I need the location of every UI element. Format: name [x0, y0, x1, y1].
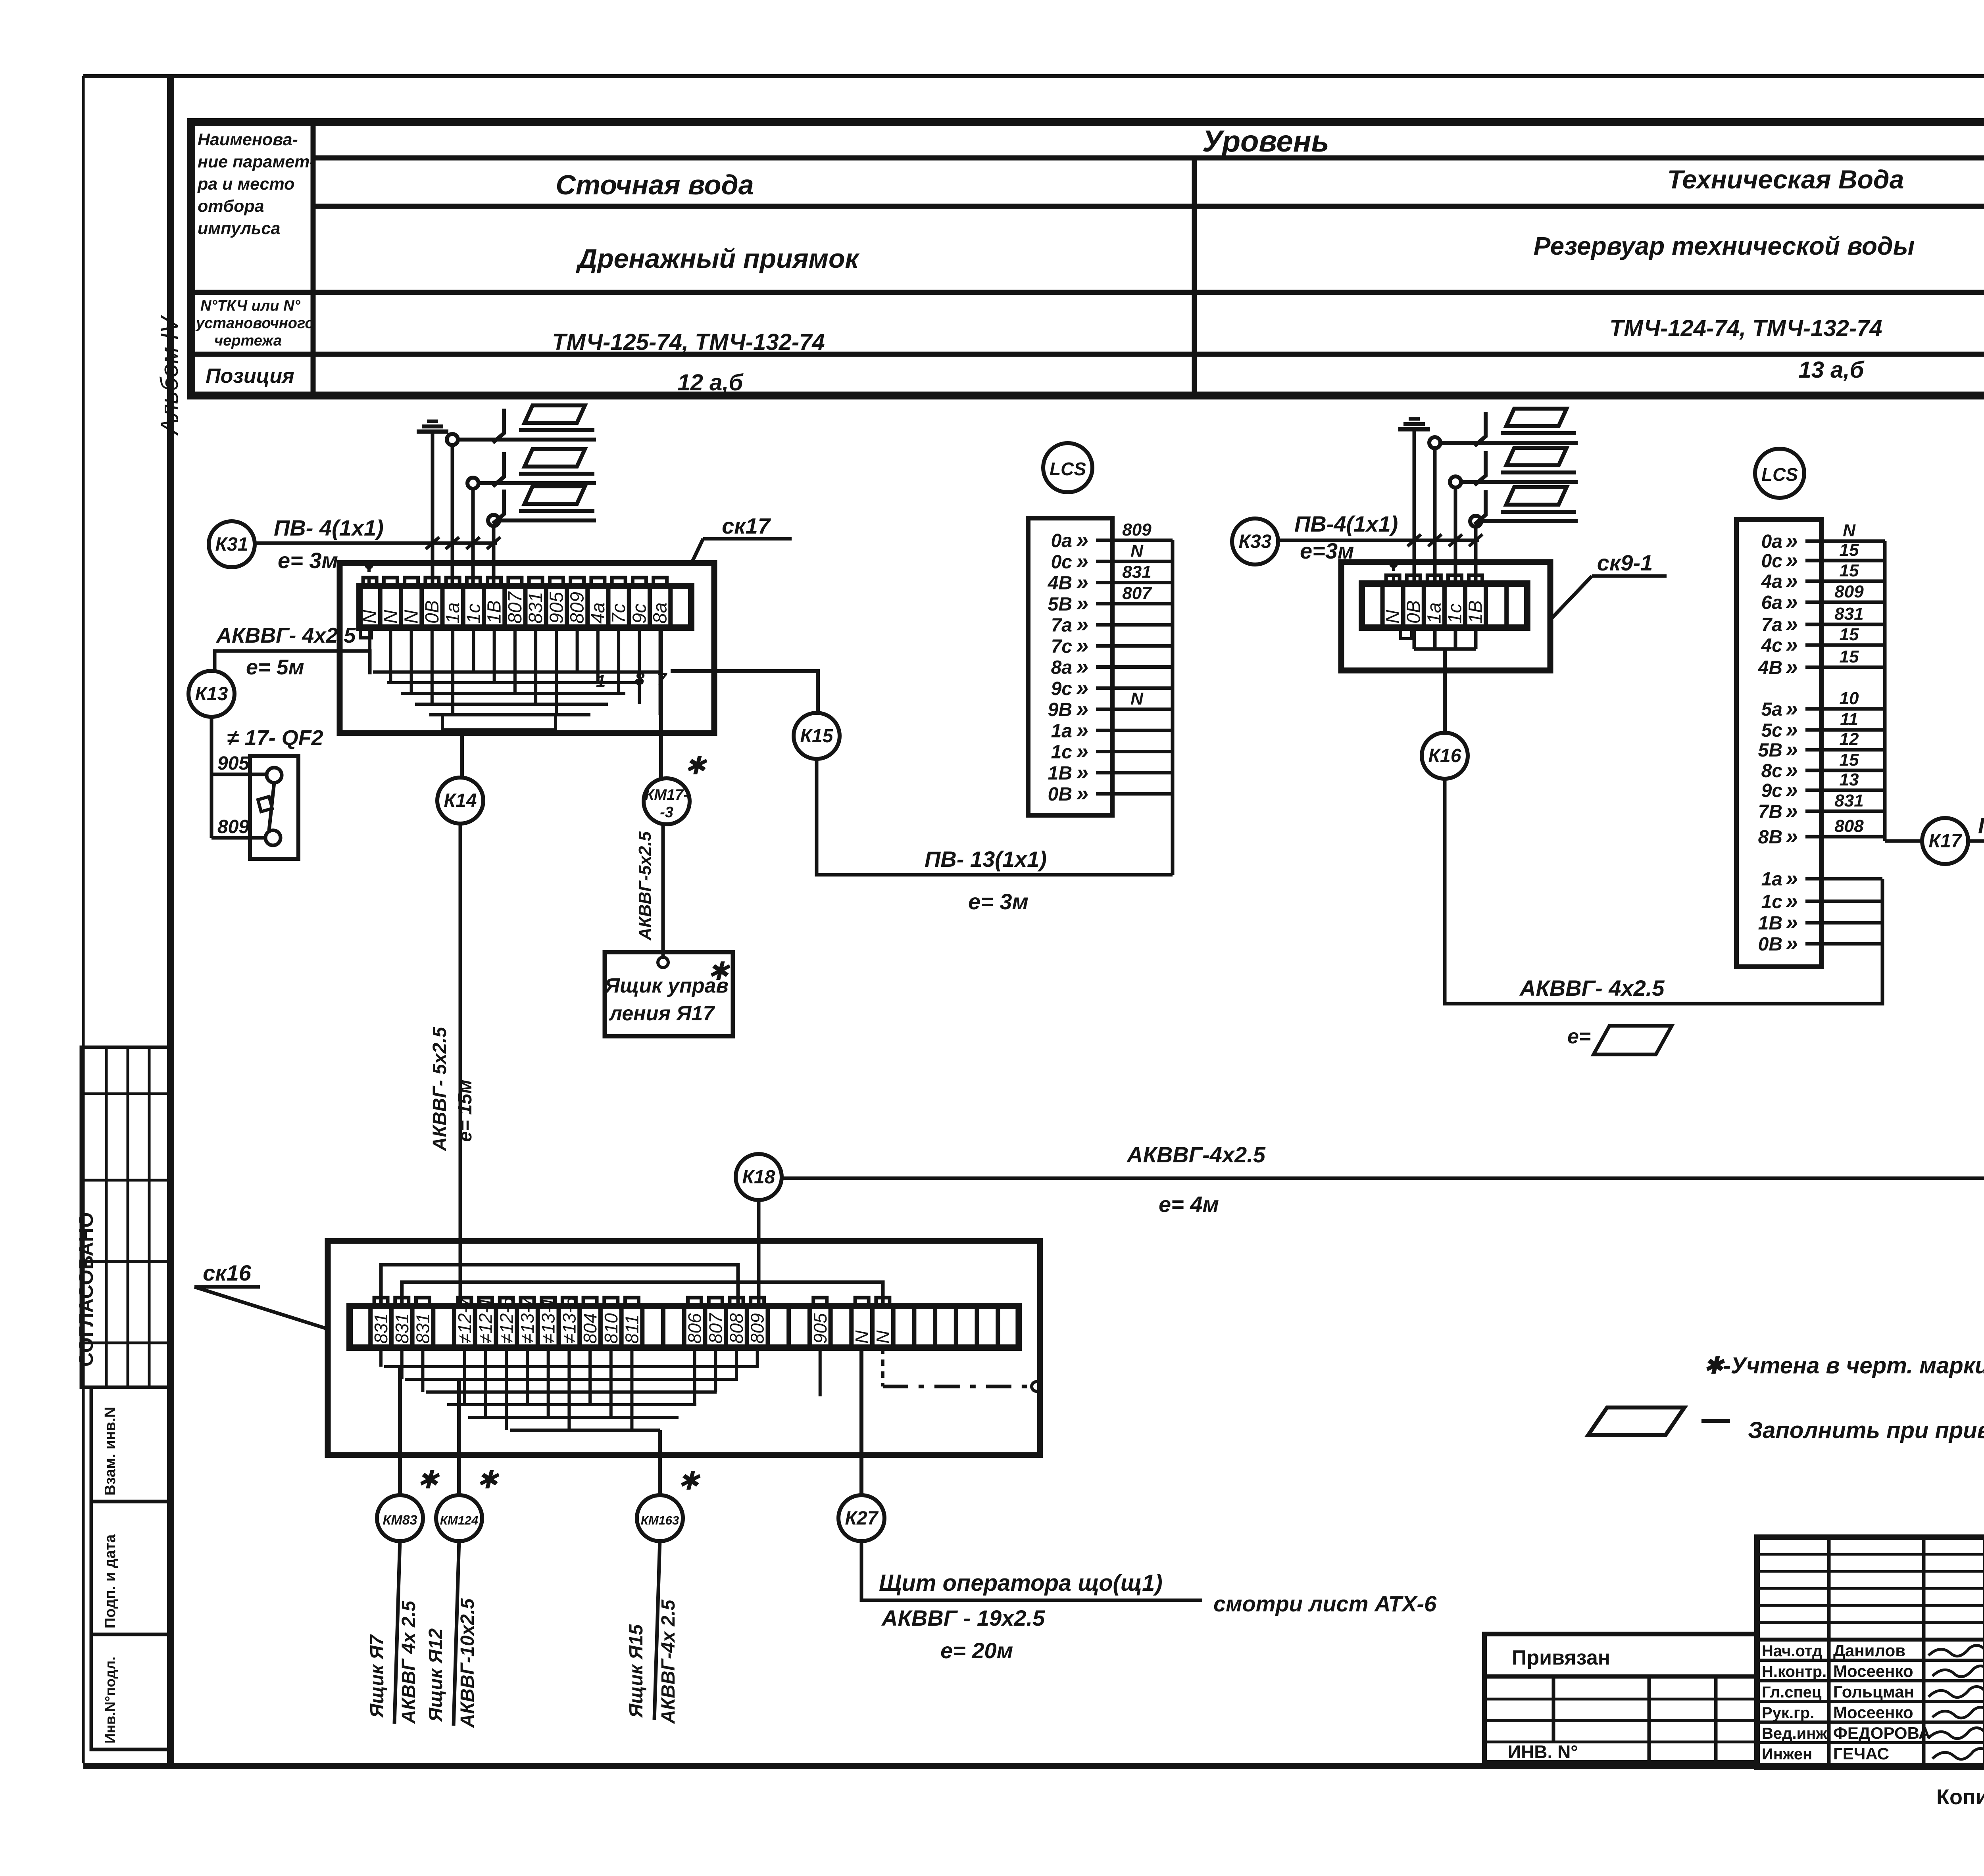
svg-text:1с: 1с: [1761, 891, 1782, 912]
svg-text:4а: 4а: [588, 603, 609, 624]
svg-text:ления Я17: ления Я17: [608, 1002, 715, 1025]
wire dash-dot spare to box edge: [881, 1348, 884, 1386]
svg-text:Ящик Я7: Ящик Я7: [367, 1634, 388, 1719]
svg-text:5а: 5а: [1761, 699, 1782, 720]
wire bus ПВ-14: [1883, 541, 1887, 841]
svg-text:ск16: ск16: [203, 1260, 252, 1285]
svg-text:0с: 0с: [1761, 551, 1782, 572]
node К17: [1922, 818, 1968, 864]
svg-text:»: »: [1786, 931, 1798, 956]
svg-text:808: 808: [1834, 816, 1864, 836]
wire bus ПВ-13: [1171, 540, 1175, 875]
svg-text:N: N: [1130, 541, 1144, 561]
parallelogram placeholder (е=): [1594, 1026, 1672, 1054]
svg-text:LCS: LCS: [1050, 459, 1086, 479]
svg-text:К15: К15: [800, 726, 834, 747]
svg-text:1а: 1а: [1051, 720, 1072, 741]
wire ящик Я12 (АКВВГ-10х2.5): [454, 1540, 459, 1726]
svg-text:0В: 0В: [422, 600, 443, 624]
svg-text:9с: 9с: [1051, 678, 1072, 699]
svg-text:Дренажный приямок: Дренажный приямок: [576, 244, 860, 274]
svg-text:807: 807: [705, 1313, 726, 1344]
svg-text:4В: 4В: [1758, 657, 1782, 678]
ground symbol ск9-1: [1409, 417, 1420, 421]
svg-text:N: N: [380, 610, 401, 624]
svg-text:804: 804: [580, 1313, 600, 1344]
margin box Взам.инв.N: [91, 1387, 171, 1502]
svg-text:ФЕДОРОВА: ФЕДОРОВА: [1833, 1724, 1930, 1742]
wire АКВВГ-4х2.5 е=4м К18 to ск9-2: [782, 1177, 1984, 1180]
svg-text:N: N: [873, 1330, 893, 1344]
svg-text:чертежа: чертежа: [214, 332, 282, 349]
svg-text:»: »: [1786, 824, 1798, 849]
svg-text:807: 807: [1122, 584, 1152, 603]
svg-text:0а: 0а: [1051, 530, 1072, 551]
svg-text:АКВВГ-10х2.5: АКВВГ-10х2.5: [457, 1598, 478, 1728]
svg-text:831: 831: [371, 1313, 391, 1344]
svg-text:К13: К13: [195, 684, 228, 705]
svg-text:5В: 5В: [1048, 594, 1072, 615]
svg-text:1а: 1а: [1424, 603, 1445, 624]
wire ПВ-4(1х1) from К33: [1278, 539, 1479, 542]
svg-text:810: 810: [601, 1313, 621, 1344]
svg-text:АКВВГ-4х 2.5: АКВВГ-4х 2.5: [658, 1599, 679, 1724]
svg-text:Наименова-: Наименова-: [198, 130, 298, 149]
level sensor 3 (ск17): [488, 515, 499, 526]
sheet outer border: [83, 74, 1984, 78]
svg-text:7В: 7В: [1758, 801, 1782, 822]
svg-text:0В: 0В: [1758, 934, 1782, 955]
svg-text:ПВ- 4(1х1): ПВ- 4(1х1): [274, 515, 384, 540]
svg-text:831: 831: [1122, 563, 1151, 582]
svg-text:ИНВ. N°: ИНВ. N°: [1508, 1742, 1578, 1762]
svg-text:8с: 8с: [1761, 760, 1782, 782]
svg-text:8а: 8а: [650, 603, 671, 624]
margin table СОГЛАСОВАНО: [81, 1047, 171, 1387]
svg-text:7а: 7а: [1761, 614, 1782, 636]
svg-text:Данилов: Данилов: [1833, 1641, 1905, 1660]
svg-text:Гл.спец: Гл.спец: [1762, 1684, 1822, 1701]
svg-text:Нач.отд: Нач.отд: [1762, 1642, 1822, 1660]
node: junction dot ск9-1 N: [1389, 559, 1398, 568]
svg-text:Привязан: Привязан: [1512, 1646, 1610, 1669]
svg-text:ра и место: ра и место: [197, 175, 294, 194]
svg-text:13: 13: [1840, 770, 1859, 789]
wire ПВ-14(1х1) е=3м К17 to ск9-2: [1968, 712, 1984, 841]
level sensor 1 (ск9-1): [1429, 437, 1440, 448]
wire К14 to ск16 (АКВВГ-5х2.5 е=15м): [459, 824, 462, 1306]
node К33: [1232, 518, 1278, 565]
svg-text:ск17: ск17: [722, 513, 771, 538]
wire hook under ск17 N1: [360, 628, 371, 638]
svg-text:АКВВГ - 19х2.5: АКВВГ - 19х2.5: [881, 1605, 1045, 1630]
terminal strip ск16: [350, 1306, 1019, 1348]
svg-text:е= 20м: е= 20м: [940, 1638, 1013, 1663]
svg-text:809: 809: [567, 592, 588, 624]
svg-text:≠ 17- QF2: ≠ 17- QF2: [227, 726, 323, 750]
svg-text:»: »: [1786, 589, 1798, 614]
svg-text:N: N: [1130, 689, 1144, 709]
svg-text:Сточная вода: Сточная вода: [556, 169, 754, 200]
svg-text:N: N: [360, 610, 381, 624]
node КМ83: [377, 1495, 423, 1541]
level sensor 3 (ск9-1): [1470, 516, 1481, 527]
svg-text:831: 831: [412, 1313, 433, 1344]
svg-text:4а: 4а: [1761, 571, 1782, 592]
wire ПВ-4(1х1) from К31: [256, 541, 497, 545]
svg-text:6а: 6а: [1761, 592, 1782, 613]
terminal box ск17 outline: [340, 563, 714, 733]
svg-text:К16: К16: [1428, 745, 1461, 766]
svg-text:АКВВГ- 4х2.5: АКВВГ- 4х2.5: [215, 624, 356, 647]
svg-text:7с: 7с: [608, 603, 629, 624]
svg-text:9с: 9с: [629, 603, 650, 624]
svg-text:N: N: [1382, 610, 1403, 624]
svg-text:Резервуар технической воды: Резервуар технической воды: [1534, 232, 1915, 260]
svg-text:ТМЧ-124-74, ТМЧ-132-74: ТМЧ-124-74, ТМЧ-132-74: [1609, 315, 1882, 341]
svg-text:809: 809: [1122, 520, 1152, 540]
svg-text:установочного: установочного: [195, 315, 314, 332]
wire ск17 8а to КМ17-3: [659, 628, 663, 778]
instrument circle LCS (left): [1043, 443, 1092, 492]
svg-text:СОГЛАСОВАНО: СОГЛАСОВАНО: [75, 1212, 97, 1367]
svg-text:Щит оператора що(щ1): Щит оператора що(щ1): [879, 1570, 1163, 1596]
wire ск17 exit to К14: [460, 730, 464, 777]
svg-text:е= 3м: е= 3м: [278, 548, 338, 573]
svg-text:905: 905: [217, 753, 250, 774]
svg-text:8а: 8а: [1051, 657, 1072, 678]
wire К27 to щит оператора: [861, 1540, 1202, 1600]
wire bundle under ск16: [384, 1365, 759, 1368]
legend: заполнить при привязке: [1588, 1407, 1684, 1435]
svg-text:КМ124: КМ124: [440, 1513, 479, 1527]
svg-text:✱-Учтена в черт. марки ЭМ: ✱-Учтена в черт. марки ЭМ: [1704, 1353, 1984, 1379]
svg-text:✱: ✱: [707, 957, 731, 985]
svg-text:К17: К17: [1929, 831, 1963, 852]
title block upper small rows: [1757, 1553, 1984, 1556]
svg-text:905: 905: [546, 592, 567, 624]
svg-text:Мосеенко: Мосеенко: [1833, 1703, 1913, 1722]
node КМ17-3: [644, 778, 690, 824]
margin box Инв.N подл.: [91, 1634, 171, 1749]
terminal box ск9-1 outline: [1341, 562, 1550, 670]
wire exits to КМ83 КМ124 КМ163 К27: [398, 1367, 402, 1496]
wire КМ17-3 to ящик Я17 (АКВВГ-5х2.5): [661, 825, 665, 958]
svg-text:0В: 0В: [1403, 600, 1424, 624]
wire АКВВГ-4х2.5 е=пустое К16 to LCS right: [1445, 778, 1882, 1004]
svg-text:✱: ✱: [477, 1465, 500, 1494]
node К14: [437, 778, 483, 824]
svg-text:8: 8: [635, 669, 645, 689]
svg-text:15: 15: [1840, 750, 1859, 770]
wire bundle under ск9-1: [1413, 628, 1416, 649]
svg-text:К31: К31: [215, 534, 248, 555]
svg-text:15: 15: [1840, 625, 1859, 644]
svg-text:Позиция: Позиция: [206, 365, 294, 388]
svg-text:905: 905: [810, 1313, 831, 1344]
svg-text:Гольцман: Гольцман: [1833, 1682, 1914, 1701]
wire bundle under ск17: [368, 628, 371, 672]
wire ск9-1 exit to К16: [1443, 649, 1447, 734]
svg-text:»: »: [1786, 632, 1798, 657]
svg-text:1с: 1с: [1051, 742, 1072, 763]
svg-text:831: 831: [1834, 604, 1863, 624]
margin box Подп. и дата: [91, 1502, 171, 1634]
svg-text:4В: 4В: [1048, 573, 1072, 594]
svg-text:809: 809: [747, 1313, 768, 1344]
svg-text:1В: 1В: [1048, 763, 1072, 784]
svg-text:806: 806: [684, 1313, 705, 1344]
wire over-strip runs ск16: [381, 1265, 738, 1306]
svg-text:ПВ-4(1х1): ПВ-4(1х1): [1294, 511, 1398, 536]
svg-text:8В: 8В: [1758, 827, 1782, 848]
title block columns: [1827, 1537, 1831, 1767]
svg-text:0В: 0В: [1048, 784, 1072, 805]
svg-text:N: N: [401, 610, 422, 624]
svg-text:КМ17-: КМ17-: [645, 787, 688, 803]
svg-text:1а: 1а: [442, 603, 463, 624]
svg-text:809: 809: [217, 816, 249, 837]
drawing frame: [167, 76, 174, 1766]
svg-text:13 а,б: 13 а,б: [1799, 357, 1865, 383]
svg-text:N°ТКЧ или N°: N°ТКЧ или N°: [200, 298, 301, 314]
svg-text:е=: е=: [1567, 1025, 1591, 1048]
svg-text:КМ83: КМ83: [383, 1513, 417, 1528]
svg-text:0а: 0а: [1761, 531, 1782, 552]
svg-text:Взам. инв.N: Взам. инв.N: [102, 1407, 119, 1496]
title block main frame: [1757, 1537, 1984, 1767]
node К16: [1422, 733, 1468, 779]
svg-text:К27: К27: [845, 1508, 879, 1529]
svg-text:Альбом IV: Альбом IV: [156, 315, 183, 436]
svg-text:1В: 1В: [484, 600, 505, 624]
svg-text:0с: 0с: [1051, 551, 1072, 572]
svg-text:»: »: [1786, 866, 1798, 891]
svg-text:-3: -3: [660, 804, 673, 821]
svg-text:N: N: [852, 1330, 872, 1344]
node: junction dot ск17 N: [365, 561, 373, 569]
node КМ163: [637, 1495, 683, 1541]
svg-text:Уровень: Уровень: [1202, 125, 1329, 158]
svg-text:Н.контр.: Н.контр.: [1762, 1663, 1826, 1680]
svg-text:Инв.N°подл.: Инв.N°подл.: [102, 1657, 118, 1744]
svg-text:АКВВГ- 4х2.5: АКВВГ- 4х2.5: [1519, 975, 1665, 1000]
svg-text:импульса: импульса: [198, 219, 280, 238]
svg-text:ск9-1: ск9-1: [1597, 550, 1653, 575]
svg-text:К18: К18: [742, 1167, 775, 1188]
svg-text:Вед.инж.: Вед.инж.: [1762, 1725, 1832, 1742]
svg-text:11: 11: [1840, 710, 1858, 729]
wire hook under ск9-1 N: [1401, 628, 1412, 639]
svg-text:9В: 9В: [1048, 699, 1072, 720]
svg-text:✱: ✱: [678, 1467, 701, 1495]
level sensor 2 (ск17): [467, 478, 479, 489]
svg-text:809: 809: [1834, 582, 1864, 601]
node КМ124: [436, 1495, 482, 1541]
svg-text:АКВВГ-5х2.5: АКВВГ-5х2.5: [635, 831, 655, 941]
svg-text:LCS: LCS: [1761, 464, 1798, 485]
svg-text:10: 10: [1840, 689, 1859, 708]
svg-text:Техническая Вода: Техническая Вода: [1667, 165, 1904, 194]
wire К13 to QF2: [210, 718, 213, 838]
parameter table frame: [191, 122, 1984, 396]
svg-text:»: »: [1786, 654, 1798, 679]
svg-text:1: 1: [596, 672, 606, 691]
svg-text:1В: 1В: [1758, 913, 1782, 934]
svg-text:811: 811: [621, 1315, 642, 1344]
node К18: [736, 1154, 782, 1200]
svg-text:831: 831: [1834, 791, 1863, 810]
ground symbol ск17: [427, 420, 438, 423]
node К27: [838, 1495, 884, 1541]
svg-text:808: 808: [726, 1313, 747, 1344]
level sensor 1 (ск17): [447, 434, 458, 445]
svg-text:Ящик Я15: Ящик Я15: [626, 1624, 647, 1719]
box ящик управления Я17: [605, 952, 733, 1036]
svg-text:смотри лист АТХ-6: смотри лист АТХ-6: [1213, 1591, 1437, 1616]
svg-text:✱: ✱: [417, 1465, 440, 1494]
svg-text:831: 831: [392, 1313, 412, 1344]
svg-text:12 а,б: 12 а,б: [678, 370, 744, 396]
svg-text:Инжен: Инжен: [1762, 1745, 1812, 1763]
svg-text:1а: 1а: [1761, 869, 1782, 890]
svg-text:»: »: [1076, 781, 1088, 806]
wire АКВВГ-4х2.5 to К13: [215, 651, 370, 674]
terminal strip ск17: [360, 586, 691, 628]
svg-text:КМ163: КМ163: [641, 1513, 679, 1527]
svg-text:Копировал:: Копировал:: [1936, 1785, 1984, 1809]
svg-text:Мосеенко: Мосеенко: [1833, 1662, 1913, 1680]
svg-text:5с: 5с: [1761, 720, 1782, 741]
node К31: [209, 521, 255, 567]
node К13: [188, 671, 235, 717]
svg-text:Подп. и дата: Подп. и дата: [102, 1534, 119, 1628]
circuit breaker QF2: [250, 756, 298, 859]
wire 905 to К27 drop: [819, 1348, 822, 1396]
terminal box ск16 outline: [328, 1241, 1040, 1455]
svg-text:АКВВГ-4х2.5: АКВВГ-4х2.5: [1126, 1142, 1266, 1167]
svg-text:отбора: отбора: [198, 197, 264, 216]
svg-text:К14: К14: [444, 790, 477, 811]
svg-text:ние парамет-: ние парамет-: [198, 152, 315, 171]
cabinet LCS left outline: [1028, 518, 1112, 815]
svg-text:АКВВГ 4х 2.5: АКВВГ 4х 2.5: [398, 1600, 419, 1724]
svg-text:7а: 7а: [1051, 615, 1072, 636]
svg-text:9с: 9с: [1761, 780, 1782, 801]
svg-text:5В: 5В: [1758, 740, 1782, 761]
wire ящик Я15 (АКВВГ-4х2.5): [654, 1540, 660, 1720]
svg-text:7с: 7с: [1051, 636, 1072, 657]
svg-text:ТМЧ-125-74, ТМЧ-132-74: ТМЧ-125-74, ТМЧ-132-74: [552, 329, 825, 355]
svg-text:ПВ- 13(1х1): ПВ- 13(1х1): [925, 847, 1047, 872]
svg-text:807: 807: [505, 591, 526, 624]
wire ящик Я7 (АКВВГ 4х2.5): [394, 1540, 400, 1724]
svg-text:е= 4м: е= 4м: [1159, 1192, 1219, 1217]
svg-text:К33: К33: [1239, 531, 1272, 552]
svg-text:15: 15: [1840, 561, 1859, 580]
node К15: [794, 713, 840, 759]
svg-text:Ящик Я12: Ящик Я12: [425, 1628, 446, 1722]
svg-text:е= 5м: е= 5м: [246, 655, 304, 679]
svg-text:е= 15м: е= 15м: [455, 1080, 476, 1142]
svg-text:1В: 1В: [1465, 600, 1486, 624]
wire ПВ-13(1х1) е=3м: [817, 760, 1173, 875]
svg-text:✱: ✱: [684, 751, 707, 780]
terminal strip ск9-1: [1362, 584, 1527, 628]
instrument circle LCS (right): [1755, 449, 1804, 498]
wire К18 into ск16: [757, 1201, 761, 1306]
svg-text:N: N: [1843, 521, 1856, 540]
svg-text:12: 12: [1840, 730, 1859, 749]
svg-text:ГЕЧАС: ГЕЧАС: [1833, 1744, 1889, 1763]
cabinet LCS right outline: [1736, 520, 1821, 967]
svg-text:Заполнить при привязке: Заполнить при привязке: [1748, 1417, 1984, 1443]
level sensor 2 (ск9-1): [1450, 476, 1461, 488]
svg-text:1с: 1с: [463, 603, 484, 624]
svg-text:4с: 4с: [1761, 635, 1782, 656]
wire ск17 to К15: [671, 671, 818, 711]
svg-text:1с: 1с: [1444, 603, 1465, 624]
svg-text:»: »: [1786, 798, 1798, 823]
svg-text:ПВ-14 (1х 1): ПВ-14 (1х 1): [1978, 813, 1984, 838]
svg-text:831: 831: [525, 592, 546, 624]
svg-text:15: 15: [1840, 647, 1859, 666]
svg-text:Рук.гр.: Рук.гр.: [1762, 1704, 1814, 1722]
title block attachment Привязан: [1484, 1634, 1757, 1763]
svg-text:е= 3м: е= 3м: [968, 889, 1029, 914]
wire bus to К16 cable: [1881, 879, 1884, 1004]
svg-text:АКВВГ- 5х2.5: АКВВГ- 5х2.5: [429, 1027, 450, 1152]
svg-text:15: 15: [1840, 540, 1859, 560]
